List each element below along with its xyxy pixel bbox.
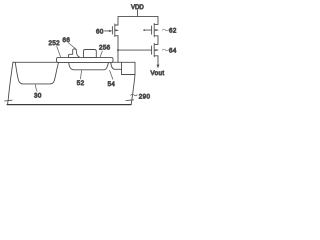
input arrow for 60 xyxy=(105,30,113,32)
left branch wire lower xyxy=(117,36,119,63)
squiggle 64 xyxy=(162,49,168,51)
svg-text:60: 60 xyxy=(96,28,104,35)
leader 66 xyxy=(69,43,77,49)
top rail wire xyxy=(118,16,158,18)
substrate left edge xyxy=(8,62,13,104)
VDD stem wire xyxy=(137,10,139,17)
region 52 tub xyxy=(69,62,109,70)
squiggle 290 xyxy=(131,94,138,95)
substrate top surface xyxy=(13,61,135,63)
substrate left break tick xyxy=(5,99,13,102)
leader 256 xyxy=(100,51,102,57)
squiggle 62 xyxy=(162,29,168,31)
leader 54 xyxy=(110,71,113,80)
leader 252 xyxy=(57,47,61,57)
isolation box 290 corner xyxy=(122,62,136,74)
region 54 tub xyxy=(111,62,122,69)
right branch wire segments xyxy=(157,17,159,66)
svg-text:290: 290 xyxy=(139,93,151,100)
junction dot node xyxy=(117,49,119,51)
well 30 xyxy=(15,62,58,84)
substrate right edge xyxy=(131,75,135,105)
electrode slab 252/256 xyxy=(57,57,114,62)
leader 30 xyxy=(35,85,37,91)
gate lead wire 64 xyxy=(118,49,152,51)
svg-text:54: 54 xyxy=(108,81,116,88)
transistor 64 xyxy=(152,43,158,56)
svg-text:Vout: Vout xyxy=(151,70,165,77)
svg-text:256: 256 xyxy=(99,44,111,51)
svg-text:252: 252 xyxy=(49,40,61,47)
svg-text:62: 62 xyxy=(169,28,177,35)
svg-text:66: 66 xyxy=(63,37,71,44)
svg-text:52: 52 xyxy=(77,80,85,87)
gate block B xyxy=(84,50,97,58)
left branch wire upper xyxy=(117,17,119,25)
leader 52 xyxy=(80,71,81,79)
Vout arrow xyxy=(157,65,160,69)
svg-text:64: 64 xyxy=(169,48,177,55)
gate lead 62 xyxy=(144,29,151,31)
transistor 60 xyxy=(112,24,118,37)
transistor 62 xyxy=(152,23,158,36)
svg-text:30: 30 xyxy=(34,93,42,100)
gate 66 xyxy=(69,49,80,58)
substrate bottom line xyxy=(7,104,131,106)
substrate right break tick xyxy=(126,99,134,102)
lead end dot 62 xyxy=(143,29,145,31)
